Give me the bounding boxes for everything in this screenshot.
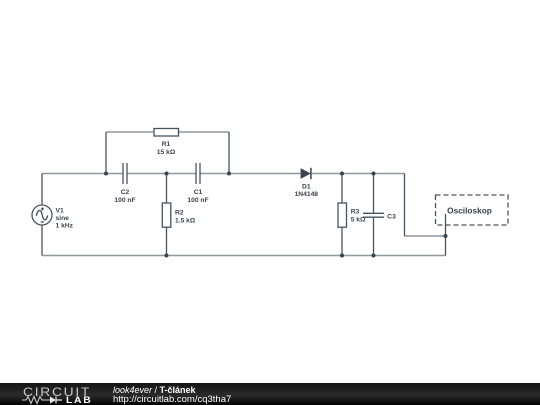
svg-text:C1: C1: [194, 189, 203, 196]
svg-text:V1: V1: [56, 207, 64, 214]
svg-text:5 kΩ: 5 kΩ: [351, 217, 366, 224]
svg-text:C3: C3: [387, 213, 396, 220]
svg-text:C2: C2: [121, 189, 130, 196]
svg-text:100 nF: 100 nF: [187, 197, 208, 204]
svg-text:1 kHz: 1 kHz: [56, 222, 74, 229]
svg-text:1N4148: 1N4148: [295, 191, 319, 198]
svg-text:Osciloskop: Osciloskop: [447, 205, 492, 215]
svg-text:15 kΩ: 15 kΩ: [157, 149, 176, 156]
svg-text:R2: R2: [175, 209, 184, 216]
svg-text:1.5 kΩ: 1.5 kΩ: [175, 217, 196, 224]
svg-text:D1: D1: [302, 183, 311, 190]
svg-text:sine: sine: [56, 215, 70, 222]
svg-text:R3: R3: [351, 209, 360, 216]
svg-text:100 nF: 100 nF: [114, 197, 135, 204]
svg-text:R1: R1: [162, 141, 171, 148]
